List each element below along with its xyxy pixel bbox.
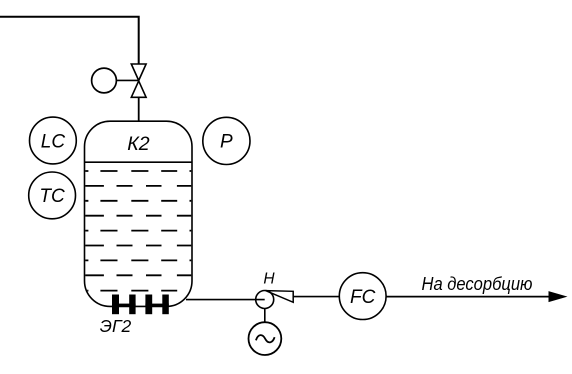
arrowhead (to desorption) (549, 291, 568, 302)
instrument FC (339, 273, 386, 320)
svg-text:К2: К2 (127, 133, 149, 155)
svg-text:LC: LC (41, 131, 66, 152)
instrument LC (30, 117, 77, 164)
valve actuator circle (92, 68, 117, 93)
svg-text:Н: Н (263, 271, 275, 288)
heater element EG2 bar 3 (145, 295, 152, 315)
heater element EG2 bar 4 (162, 295, 169, 315)
wire: pump shaft to motor (264, 309, 266, 323)
svg-text:FC: FC (350, 287, 376, 308)
wire: FC to discharge arrow (386, 296, 551, 298)
vessel K2 (column shell) (85, 121, 193, 306)
instrument P (203, 117, 250, 164)
wire: vessel outlet to pump H (186, 299, 265, 301)
svg-text:ЭГ2: ЭГ2 (100, 316, 132, 336)
wire: pump flag to FC (293, 296, 339, 298)
instrument TC (29, 172, 76, 219)
wire: actuator to valve stem (116, 79, 138, 81)
wire: valve outlet down to vessel K2 (138, 97, 140, 123)
motor M (circle with sine) (249, 322, 282, 355)
valve V1 (control valve, two triangles) (131, 64, 146, 97)
svg-text:P: P (220, 132, 233, 153)
heater element EG2 bar 2 (129, 295, 135, 315)
liquid level line in K2 (85, 161, 193, 163)
heater element EG2 bar 1 (112, 295, 119, 315)
pump H (circle with flag) (256, 291, 274, 309)
liquid hatch dashes inside K2 (85, 171, 192, 291)
heater link bars (112, 304, 136, 307)
svg-text:TC: TC (39, 186, 65, 207)
svg-text:На десорбцию: На десорбцию (422, 273, 533, 294)
wire: top feed pipe into valve (0, 17, 139, 64)
